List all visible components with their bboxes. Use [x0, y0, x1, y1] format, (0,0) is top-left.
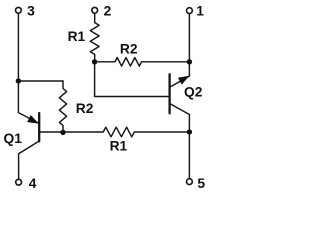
svg-text:R1: R1 — [110, 138, 128, 153]
svg-text:2: 2 — [104, 3, 112, 18]
svg-text:5: 5 — [197, 176, 205, 191]
svg-text:4: 4 — [29, 176, 37, 191]
svg-text:1: 1 — [196, 4, 204, 19]
svg-text:R1: R1 — [68, 29, 86, 44]
svg-text:R2: R2 — [76, 101, 94, 116]
svg-text:R2: R2 — [120, 41, 138, 56]
svg-text:Q1: Q1 — [4, 131, 23, 146]
svg-text:Q2: Q2 — [184, 85, 203, 100]
svg-text:3: 3 — [27, 3, 35, 18]
